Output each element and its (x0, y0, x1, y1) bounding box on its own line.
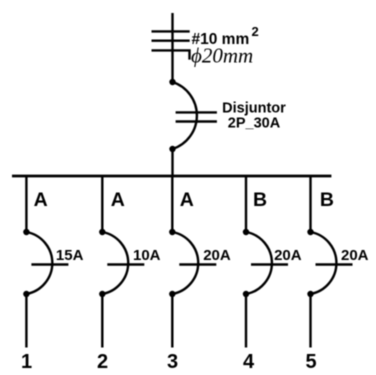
svg-text:A: A (34, 189, 48, 211)
svg-text:2: 2 (97, 351, 108, 373)
svg-text:2P_30A: 2P_30A (228, 115, 281, 131)
svg-text:3: 3 (167, 351, 178, 373)
svg-text:20A: 20A (203, 247, 231, 264)
svg-text:2: 2 (252, 24, 259, 39)
svg-text:10A: 10A (133, 247, 161, 264)
svg-text:ϕ20mm: ϕ20mm (191, 44, 253, 68)
svg-text:15A: 15A (56, 247, 84, 264)
svg-text:20A: 20A (341, 247, 369, 264)
svg-text:A: A (111, 189, 125, 211)
svg-text:4: 4 (243, 351, 255, 373)
svg-text:A: A (180, 189, 194, 211)
svg-text:1: 1 (21, 351, 32, 373)
svg-text:20A: 20A (274, 247, 302, 264)
svg-text:5: 5 (305, 351, 316, 373)
svg-text:B: B (253, 189, 267, 211)
svg-text:Disjuntor: Disjuntor (222, 100, 286, 116)
svg-text:B: B (320, 189, 334, 211)
